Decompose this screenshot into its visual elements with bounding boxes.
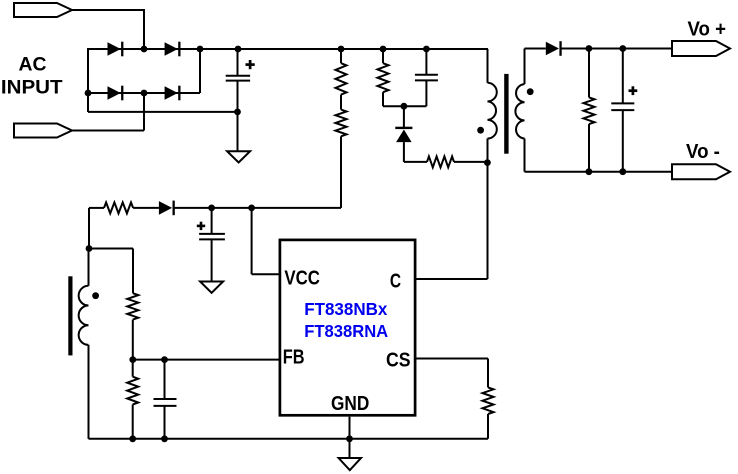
svg-text:FT838NBx: FT838NBx (304, 299, 387, 319)
svg-text:C: C (390, 271, 401, 293)
svg-text:FB: FB (283, 347, 305, 369)
svg-text:GND: GND (331, 392, 369, 415)
svg-text:CS: CS (386, 350, 411, 372)
svg-text:AC: AC (19, 55, 47, 76)
svg-text:Vo -: Vo - (686, 141, 720, 163)
svg-text:VCC: VCC (284, 267, 320, 289)
svg-text:Vo +: Vo + (688, 19, 727, 41)
svg-text:FT838RNA: FT838RNA (304, 321, 388, 341)
svg-text:INPUT: INPUT (1, 78, 63, 99)
